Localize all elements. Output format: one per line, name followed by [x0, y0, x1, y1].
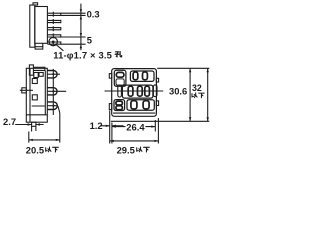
svg-text:2.7: 2.7 [3, 116, 16, 127]
svg-text:5: 5 [87, 35, 92, 46]
side view: foot connector lines [35, 43, 43, 46]
extension from lug 3 to 20.5 dim [58, 106, 60, 143]
leader line to hole label [56, 45, 63, 51]
front view: foot extension lines [32, 126, 36, 131]
bottom view: inner bottom line [113, 112, 155, 114]
front view: flange latch A [34, 73, 38, 78]
top extension line for 30.6/32 [157, 67, 209, 69]
arrowheads 20.5 [29, 139, 33, 141]
pin row 1 extension lines [61, 13, 86, 15]
front view: inner wall right [44, 71, 46, 115]
terminal lug 1 centerline [47, 73, 60, 75]
bottom view: left upper tab [109, 74, 112, 79]
terminal lug 2 [47, 88, 57, 95]
front view: bottom foot [32, 122, 36, 126]
arrowheads 0.3 [80, 9, 82, 13]
CJK 孔 after 3.5 [115, 52, 121, 57]
30.6 dimension line [189, 68, 191, 121]
bottom view: left lower tab [109, 104, 112, 110]
bottom view: right upper tab [156, 78, 158, 82]
terminal lug 3 centerline [47, 105, 58, 107]
hole callout circle [49, 37, 57, 45]
svg-text:20.5: 20.5 [26, 145, 44, 156]
hole group top-left [114, 70, 126, 86]
29.5 dimension line [110, 140, 159, 142]
terminal lug 3 center dot [52, 105, 54, 107]
bottom view: right lower tab [156, 101, 158, 106]
middle left slot [118, 85, 122, 97]
open recess below pill 1 [116, 79, 124, 85]
bottom view: lower lip line (also extension line for 30.6/32) [111, 120, 209, 122]
hole pill 11 [143, 101, 149, 109]
svg-text:30.6: 30.6 [169, 85, 187, 96]
hole pill 6 [138, 86, 143, 96]
pin row 2 [47, 19, 60, 24]
arrowheads 26.4 [112, 125, 116, 127]
lug tip vertical line [52, 69, 54, 115]
1.2 dimension line [101, 125, 124, 127]
svg-text:32: 32 [192, 83, 202, 93]
side view: narrow left column of socket body [30, 5, 35, 47]
hole pill 8 [116, 101, 123, 105]
arrowheads 32 [207, 68, 209, 72]
side view: wide socket body [35, 7, 48, 44]
CJK yi-xia after 29.5 [137, 147, 150, 152]
front view: left mid tab [22, 88, 27, 93]
front view: lower recess lines [26, 106, 47, 115]
hole pill 5 [128, 86, 133, 96]
CJK yi-xia after 20.5 [46, 147, 59, 152]
pin row 4 extension line [61, 36, 86, 38]
hole pill 4 [143, 72, 148, 80]
middle right slot [153, 85, 157, 97]
20.5 extension line left [28, 132, 30, 143]
hole pill 9 [116, 106, 123, 110]
svg-text:1.2: 1.2 [90, 120, 103, 131]
svg-text:11-φ1.7 × 3.5: 11-φ1.7 × 3.5 [53, 49, 112, 60]
front view: tab centerline [20, 89, 33, 91]
front view: socket body [26, 68, 47, 122]
CJK yi-xia under 32 [192, 93, 204, 98]
front view: flange latch B [39, 73, 43, 77]
front view: inner latch rect upper [32, 79, 37, 84]
hole group bottom-left [114, 100, 125, 111]
32 dimension line [207, 68, 209, 121]
svg-text:0.3: 0.3 [87, 9, 100, 20]
terminal lug 1 center dot [52, 73, 54, 75]
extension line right 29.5 [157, 118, 159, 144]
hole group top-right [130, 71, 154, 81]
svg-text:29.5: 29.5 [117, 145, 135, 156]
arrowheads 30.6 [189, 68, 191, 72]
extension line B (case edge) [111, 123, 113, 144]
pin row 1 [47, 12, 60, 17]
pin row 3 [47, 26, 60, 31]
front view: flange post [29, 65, 33, 75]
hole pill 7 [145, 86, 150, 96]
terminal lug 2 center dot [52, 90, 54, 92]
26.4 dimension line [112, 126, 155, 128]
pin row 5 extension line [61, 43, 86, 45]
svg-text:26.4: 26.4 [126, 121, 145, 132]
front view: inner wall line [29, 68, 31, 122]
terminal lug 1 [47, 71, 57, 78]
extension line right 26.4 [154, 120, 156, 132]
arrowheads 2.7 [28, 123, 32, 125]
arrowheads 5 [80, 33, 82, 37]
front view: flange top bar [33, 67, 45, 70]
terminal lug 3 [47, 102, 57, 110]
pin row 5 [47, 41, 60, 46]
pin row 4 [47, 33, 60, 38]
dimension line vertical for 0.3 and 5 [80, 4, 82, 51]
hole pill 3 [133, 72, 138, 80]
side view: bottom foot block [35, 47, 43, 49]
side view: top latch tab [33, 3, 38, 5]
bottom view: outer case [112, 69, 157, 117]
hole pill 1 [116, 72, 124, 77]
front view: inner latch rect lower [32, 95, 37, 100]
horizontal centerline of bottom view [105, 90, 164, 92]
hole group middle [122, 85, 152, 98]
hole pill 10 [131, 101, 137, 109]
20.5 dimension line [29, 139, 60, 141]
arrowheads 29.5 [110, 140, 114, 142]
hole callout center dot [52, 41, 55, 44]
arrowheads 1.2 [106, 125, 110, 127]
extension line A (tab edge) [109, 111, 111, 144]
hole group bottom-right [127, 100, 154, 111]
terminal lug 2 centerline [47, 90, 66, 92]
2.7 dimension line [15, 124, 43, 126]
